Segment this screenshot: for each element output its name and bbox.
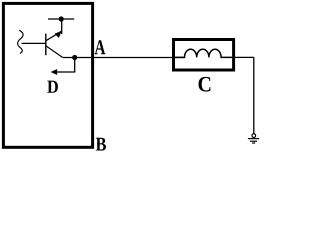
transistor Q1 base bar — [45, 34, 47, 56]
inductor block outline — [174, 40, 234, 71]
wire output vertical — [253, 57, 255, 134]
wire top rail — [48, 18, 74, 20]
wire feedback horizontal — [57, 71, 76, 73]
transistor Q1 emitter diagonal — [46, 46, 63, 58]
inductor L1 coil — [175, 49, 232, 57]
feedback arrowhead — [51, 69, 58, 75]
wire feedback vertical — [74, 58, 76, 73]
input squiggle — [18, 30, 23, 53]
amplifier block outline — [3, 3, 92, 147]
transistor Q1 collector diagonal — [46, 31, 62, 41]
ground bar 3 — [252, 142, 255, 144]
ground terminal circle — [252, 134, 256, 138]
ground bar 1 — [248, 138, 259, 140]
wire node A horizontal — [63, 57, 185, 59]
transistor Q1 collector arrowhead — [55, 31, 62, 38]
wire base lead — [22, 42, 46, 44]
junction dot on top rail — [59, 16, 64, 21]
inductor label C — [199, 77, 211, 92]
wire collector vertical — [61, 19, 63, 34]
wire output horizontal — [232, 56, 254, 58]
node A label — [95, 40, 106, 54]
junction dot node A — [72, 55, 77, 60]
ground bar 2 — [250, 140, 257, 142]
node D label — [47, 81, 58, 93]
node B label — [96, 138, 106, 151]
